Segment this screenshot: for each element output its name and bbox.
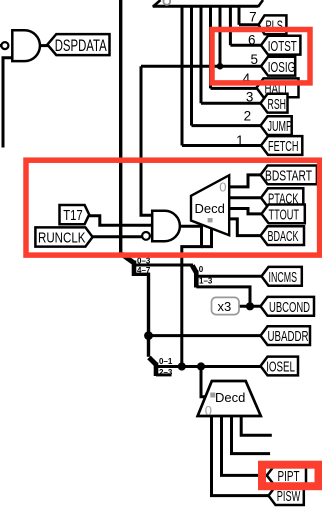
wire T17 to U2 middle input xyxy=(89,216,153,225)
op-amp U1 (NAND-style gate, top left) xyxy=(1,30,40,61)
x3 constant xyxy=(212,297,240,314)
wire U3 out3 to TTOUT xyxy=(229,209,262,214)
splitter S3 diagonal xyxy=(149,358,156,365)
wire decoder out 3 vertical xyxy=(200,5,203,103)
tunnel BDACK xyxy=(261,226,305,245)
splitter S2 spine xyxy=(194,271,199,288)
wire FETCH xyxy=(182,144,262,147)
svg-text:0: 0 xyxy=(205,403,212,418)
wire decoder out 5 vertical to junction xyxy=(219,5,222,66)
wire U3 out2 to PTACK xyxy=(229,196,261,199)
svg-text:IOSEL: IOSEL xyxy=(266,359,295,376)
wire U3 out4 to BDACK xyxy=(229,219,261,236)
decoder U4 (Decd, south facing) xyxy=(198,381,261,418)
tunnel RSH xyxy=(261,94,288,113)
svg-text:Decd: Decd xyxy=(195,201,225,216)
tunnel IOSIG xyxy=(261,57,295,76)
splitter S2 diagonal xyxy=(192,266,196,273)
svg-text:3: 3 xyxy=(246,90,254,105)
wire S1 pin 4-7 down bus xyxy=(134,274,149,357)
wire U1 output to DSPDATA xyxy=(40,44,50,47)
wire S3 pin 0-1 to IOSEL xyxy=(156,365,261,368)
wire JUMP xyxy=(192,124,262,127)
tunnel PLS xyxy=(259,15,287,34)
red annotation rectangle 1 (IOTST/IOSIG) xyxy=(212,30,310,83)
op-amp U2 (AND gate, middle) xyxy=(142,211,180,241)
red annotation rectangle 3 (PIPT) xyxy=(262,465,319,487)
splitter S1 spine xyxy=(132,261,137,277)
wire S3 pin 2-3 stub xyxy=(156,373,172,376)
tunnel JUMP xyxy=(261,116,293,135)
wire U3 select pin stub xyxy=(201,223,212,247)
tunnel TTOUT xyxy=(262,205,305,224)
wire S2 pin 1-3 to x3 junction xyxy=(196,287,250,306)
tunnel UBADDR xyxy=(261,326,311,345)
wire decoder out 2 vertical xyxy=(190,5,193,126)
wire decoder out 7 vertical xyxy=(238,5,241,25)
wire S2 pin 0 to INCMS xyxy=(196,275,262,278)
svg-text:2–3: 2–3 xyxy=(159,368,173,377)
svg-text:0–3: 0–3 xyxy=(137,257,151,266)
wire U4 out0 to PISW xyxy=(212,415,270,496)
tunnel FETCH xyxy=(261,136,302,155)
svg-text:TTOUT: TTOUT xyxy=(269,207,300,224)
svg-text:x3: x3 xyxy=(218,299,232,314)
svg-text:2: 2 xyxy=(244,109,252,124)
tunnel UBCOND xyxy=(261,297,315,316)
junction dot IOSIG net xyxy=(217,63,224,70)
junction dot UBADDR tap xyxy=(144,331,153,340)
svg-text:RSH: RSH xyxy=(268,96,287,113)
tunnel HALT xyxy=(257,78,299,97)
tunnel IOSEL xyxy=(261,357,299,376)
svg-text:4–7: 4–7 xyxy=(137,266,151,275)
wire U4 out3 loose end xyxy=(241,415,272,435)
tunnel INCMS xyxy=(262,267,302,286)
junction dot IOSEL net A xyxy=(178,362,186,370)
tunnel BDSTART xyxy=(261,166,317,185)
svg-text:JUMP: JUMP xyxy=(268,118,293,135)
junction dot IOSEL net B xyxy=(197,362,205,370)
svg-text:0: 0 xyxy=(199,265,204,274)
wire S1 pin 0-3 to S2 xyxy=(134,264,193,267)
svg-text:5: 5 xyxy=(250,52,258,67)
svg-text:PISW: PISW xyxy=(277,488,301,505)
wire decoder out 1 vertical xyxy=(181,5,184,146)
wire RUNCLK to U2 bubble xyxy=(93,235,142,238)
svg-text:1–3: 1–3 xyxy=(199,277,213,286)
svg-text:BDACK: BDACK xyxy=(268,228,299,245)
svg-text:0: 0 xyxy=(219,180,226,195)
svg-text:Decd: Decd xyxy=(215,390,245,405)
wire U4 out1 to PIPT xyxy=(222,415,269,475)
wire lower input of U1 from left rail xyxy=(3,58,12,148)
top decoder U0 bottom edge (cut off) xyxy=(153,0,263,7)
svg-text:INCMS: INCMS xyxy=(269,269,298,286)
wire RSH xyxy=(201,102,261,105)
wire U4 out2 loose end xyxy=(232,415,271,454)
svg-text:FETCH: FETCH xyxy=(268,138,299,155)
svg-text:BDSTART: BDSTART xyxy=(265,168,312,185)
tunnel DSPDATA xyxy=(47,34,109,55)
wire stub into U1 bubble input xyxy=(0,44,2,47)
svg-text:T17: T17 xyxy=(63,207,82,224)
wire select into U4 xyxy=(201,367,207,397)
svg-text:RUNCLK: RUNCLK xyxy=(38,230,86,247)
tunnel IOTST xyxy=(261,36,300,55)
wire UBADDR from bus tap xyxy=(149,334,262,337)
wire decoder out 4 vertical (hidden behind red edge) xyxy=(209,5,212,88)
splitter S3 spine xyxy=(154,363,159,377)
svg-text:6: 6 xyxy=(248,32,256,47)
svg-text:UBCOND: UBCOND xyxy=(269,299,310,316)
tunnel T17 xyxy=(60,205,90,224)
wire PLS xyxy=(239,23,261,26)
wire HALT xyxy=(211,87,258,90)
wire bus from top edge into splitter S1 xyxy=(119,0,122,253)
tunnel PTACK xyxy=(261,188,303,207)
wire U2 output routing down-left-down xyxy=(180,226,202,366)
tunnel PIPT xyxy=(267,466,306,485)
svg-text:0–1: 0–1 xyxy=(159,357,173,366)
wire IOSIG vertical drop to U2 xyxy=(141,66,153,215)
svg-text:1: 1 xyxy=(236,133,244,148)
svg-text:IOSIG: IOSIG xyxy=(268,59,296,76)
tunnel PISW xyxy=(269,486,304,505)
wire x3 output to UBCOND xyxy=(239,305,261,308)
wire IOSIG long horizontal xyxy=(141,65,261,68)
svg-text:DSPDATA: DSPDATA xyxy=(55,37,107,55)
red annotation rectangle 2 (middle block) xyxy=(26,160,320,255)
junction dot x3/UBCOND xyxy=(246,302,254,310)
svg-text:IOTST: IOTST xyxy=(268,38,297,55)
svg-text:UBADDR: UBADDR xyxy=(268,328,309,345)
tunnel RUNCLK xyxy=(35,227,92,246)
splitter S1 diagonal xyxy=(122,254,135,263)
wire decoder out 6 vertical xyxy=(229,5,232,45)
wire U3 out1 to BDSTART xyxy=(229,175,261,187)
wire IOTST xyxy=(230,44,261,47)
decoder U3 (Decd, east facing) xyxy=(191,175,229,235)
svg-text:7: 7 xyxy=(249,10,257,25)
